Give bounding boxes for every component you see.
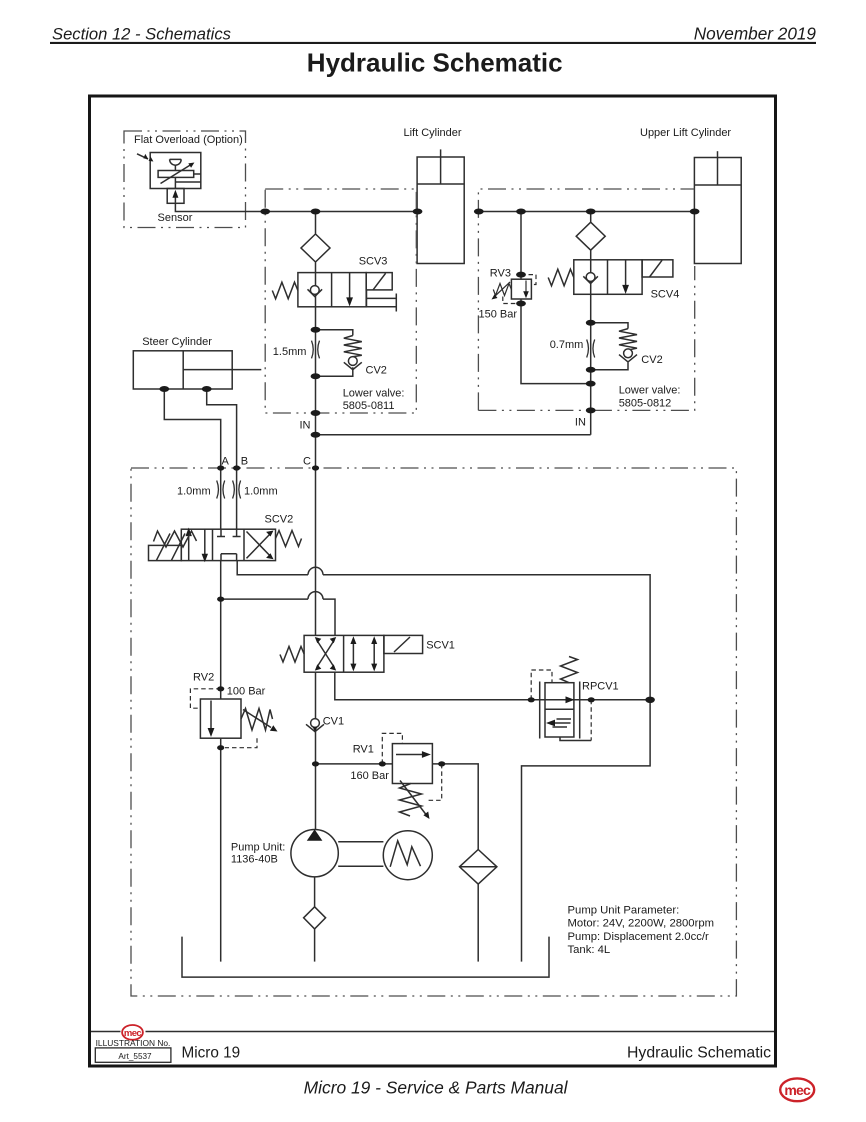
return filter diamond xyxy=(460,850,497,885)
node RPCV1 outlet xyxy=(645,697,655,703)
sensor up arrow xyxy=(174,195,176,203)
pump unit dash-dot box xyxy=(131,468,736,996)
orifice 1.0mm (A) xyxy=(217,481,225,499)
solenoid SCV4 xyxy=(642,260,673,277)
wire CV1 junction to RV1 xyxy=(316,763,393,765)
svg-text:Lift Cylinder: Lift Cylinder xyxy=(404,127,462,139)
node CV2 right bottom xyxy=(586,367,596,373)
CV2 right check ball xyxy=(624,349,633,358)
svg-text:SCV4: SCV4 xyxy=(651,289,680,301)
svg-text:Hydraulic Schematic: Hydraulic Schematic xyxy=(307,48,563,78)
RPCV1 drain hook xyxy=(560,737,591,741)
flat overload option dash-dot box xyxy=(124,131,246,228)
svg-text:RPCV1: RPCV1 xyxy=(582,681,619,693)
wire RV1 to return filter xyxy=(432,764,478,850)
svg-text:Micro 19: Micro 19 xyxy=(182,1044,241,1061)
svg-text:Lower valve:: Lower valve: xyxy=(619,385,681,397)
svg-text:5805-0811: 5805-0811 xyxy=(343,400,395,412)
SCV2 center position blocked ports xyxy=(217,529,241,560)
node RV3 branch xyxy=(516,209,526,215)
valve SCV4 flow arrow xyxy=(625,260,627,287)
SCV1 parallel arrows xyxy=(353,642,374,667)
svg-text:1136-40B: 1136-40B xyxy=(231,853,278,865)
node SCV2 A-return xyxy=(217,597,224,602)
wire SCV2 B-port to right riser (hop over main) xyxy=(237,561,650,962)
node SCV4 branch xyxy=(586,209,596,215)
wire SCV1 to RPCV1 xyxy=(335,672,650,700)
RV3 flow arrow xyxy=(525,281,527,293)
RV3 spring and adjuster xyxy=(493,284,511,296)
node steer port B xyxy=(202,386,212,392)
sensor outer box xyxy=(150,153,201,189)
node RV3 return xyxy=(586,381,596,387)
node RV2 inlet xyxy=(217,686,224,691)
node CV2 left top xyxy=(311,327,321,333)
orifice 1.0mm (B) xyxy=(233,481,241,499)
sensor wiper links xyxy=(175,174,200,189)
node SCV3 branch xyxy=(311,209,321,215)
node on left wire at box edge xyxy=(260,209,270,215)
lift cylinder rod xyxy=(440,149,442,184)
svg-text:RV1: RV1 xyxy=(353,743,374,755)
svg-text:160 Bar: 160 Bar xyxy=(350,770,389,782)
svg-text:Section 12 - Schematics: Section 12 - Schematics xyxy=(52,24,231,43)
valve SCV1 body xyxy=(304,635,384,672)
svg-text:IN: IN xyxy=(300,419,311,431)
wire SCV2 A-port down xyxy=(220,561,222,699)
RV2 pilot dashed xyxy=(190,689,257,748)
steer cylinder rod xyxy=(183,369,261,371)
relief valve RV1 body xyxy=(392,744,432,784)
SCV2 right spring xyxy=(276,531,302,547)
svg-text:0.7mm: 0.7mm xyxy=(550,339,584,351)
node IN left wire xyxy=(311,432,321,438)
valve SCV2 body xyxy=(181,529,275,560)
svg-text:Tank: 4L: Tank: 4L xyxy=(568,944,611,956)
RV2 spring and adjuster xyxy=(241,709,273,731)
lower valve 5805-0812 dash-dot box xyxy=(478,189,694,410)
wire steer port A to node A xyxy=(164,389,220,468)
svg-text:November 2019: November 2019 xyxy=(694,23,817,43)
relief valve RV3 branch wire xyxy=(521,212,591,384)
orifice 1.5mm xyxy=(312,341,320,359)
RPCV1 spring xyxy=(561,657,578,683)
node RPCV1 pilot left xyxy=(528,697,535,702)
CV2 right spring xyxy=(619,329,637,350)
svg-text:100 Bar: 100 Bar xyxy=(227,685,266,697)
valve SCV4 body xyxy=(574,260,642,295)
steer cylinder piston xyxy=(182,351,184,389)
svg-text:150 Bar: 150 Bar xyxy=(479,309,518,321)
node RPCV1 pilot right xyxy=(588,697,595,702)
pump suction line xyxy=(314,877,316,907)
flow regulator RPCV1 rails xyxy=(540,682,580,739)
sensor dome element xyxy=(170,159,182,170)
svg-text:SCV2: SCV2 xyxy=(265,514,294,526)
node RV2 outlet xyxy=(217,745,224,750)
RPCV1 body xyxy=(545,683,574,737)
SCV1 spring xyxy=(280,647,304,663)
svg-text:SCV1: SCV1 xyxy=(426,639,455,651)
node lift cylinder port xyxy=(413,209,423,215)
upper lift cylinder body xyxy=(694,158,741,264)
pump direction triangle xyxy=(307,829,323,840)
wire return filter to tank xyxy=(477,884,479,962)
sensor signal arrow (top-left) xyxy=(137,154,148,159)
SCV1 cross arrows xyxy=(317,641,334,668)
svg-text:Flat Overload (Option): Flat Overload (Option) xyxy=(134,134,243,146)
wire node B to SCV2 xyxy=(236,468,238,529)
wire SCV4 down to IN xyxy=(590,294,592,435)
wire SCV1 down through CV1 to pump xyxy=(315,672,317,830)
node CV2 left bottom xyxy=(311,373,321,379)
RV1 spring and adjuster xyxy=(400,784,422,817)
svg-text:SCV3: SCV3 xyxy=(359,256,388,268)
valve SCV3 flow arrow xyxy=(349,273,351,299)
svg-text:Lower valve:: Lower valve: xyxy=(343,387,405,399)
svg-text:RV2: RV2 xyxy=(193,672,214,684)
valve SCV3 check position xyxy=(315,273,317,307)
main border frame xyxy=(90,96,776,1066)
svg-text:5805-0812: 5805-0812 xyxy=(619,398,672,410)
svg-text:1.5mm: 1.5mm xyxy=(273,346,307,358)
SCV2 right position cross arrows xyxy=(247,532,271,559)
pump circle xyxy=(291,830,338,877)
svg-text:Pump Unit Parameter:: Pump Unit Parameter: xyxy=(568,904,680,916)
svg-text:B: B xyxy=(241,456,248,468)
node right wire at box edge xyxy=(474,209,484,215)
valve SCV4 spring xyxy=(548,269,574,286)
hop A-return over main xyxy=(308,592,323,600)
lift cylinder piston xyxy=(417,183,464,185)
svg-text:Sensor: Sensor xyxy=(158,212,193,224)
node RV1 pilot xyxy=(379,761,386,766)
solenoid SCV1 xyxy=(384,635,423,653)
relief valve RV2 body xyxy=(200,699,241,738)
check valve CV2 (right) loop xyxy=(591,323,628,370)
svg-text:Art_5537: Art_5537 xyxy=(118,1052,152,1061)
upper lift cylinder rod xyxy=(717,151,719,185)
suction strainer diamond xyxy=(304,907,326,929)
node IN right xyxy=(586,407,596,413)
sensor variable arrow xyxy=(161,165,191,184)
steer cylinder body xyxy=(133,351,232,389)
RPCV1 pilot dashed xyxy=(531,670,591,741)
node A xyxy=(217,465,224,470)
SCV2 left spring xyxy=(154,531,197,547)
svg-text:CV2: CV2 xyxy=(641,354,662,366)
svg-text:Motor: 24V, 2200W, 2800rpm: Motor: 24V, 2200W, 2800rpm xyxy=(568,918,715,930)
svg-text:Micro 19 - Service & Parts Man: Micro 19 - Service & Parts Manual xyxy=(304,1077,569,1097)
check valve CV2 (left) loop xyxy=(316,330,353,377)
RV1 pilot dashed xyxy=(382,733,441,800)
svg-text:Upper Lift Cylinder: Upper Lift Cylinder xyxy=(640,127,731,139)
CV2 left spring xyxy=(344,336,362,357)
svg-text:1.0mm: 1.0mm xyxy=(177,486,211,498)
wire node A to SCV2 xyxy=(220,468,222,529)
svg-text:C: C xyxy=(303,456,311,468)
motor M symbol xyxy=(390,841,420,867)
RPCV1 lower arrow with restrictor xyxy=(552,722,571,724)
wire SCV2 A-return to SCV1 (hop over main) xyxy=(221,599,335,635)
orifice 0.7mm xyxy=(587,340,595,358)
relief valve RV2 wire xyxy=(220,738,222,961)
svg-text:Pump: Displacement 2.0cc/r: Pump: Displacement 2.0cc/r xyxy=(568,931,710,943)
RV3 pilot dashed xyxy=(503,275,536,304)
node steer port A xyxy=(159,386,169,392)
node RV3 outlet xyxy=(516,301,526,307)
illustration number box xyxy=(95,1048,171,1062)
motor circle xyxy=(383,831,432,880)
svg-text:Pump Unit:: Pump Unit: xyxy=(231,842,285,854)
pump-motor coupling lines xyxy=(338,842,383,867)
relief valve RV3 body xyxy=(511,279,531,299)
header rule xyxy=(50,42,816,44)
node C xyxy=(312,465,319,470)
sensor resistor element xyxy=(158,171,194,178)
RV2 flow arrow xyxy=(210,701,212,731)
lift cylinder body xyxy=(417,157,464,264)
mec logo footer right xyxy=(780,1078,814,1101)
tank outline xyxy=(182,937,549,978)
node CV2 right top xyxy=(586,320,596,326)
suction line into tank xyxy=(314,929,316,962)
wire right circuit to upper lift cylinder xyxy=(478,211,694,213)
valve SCV4 check position xyxy=(590,260,592,295)
svg-text:ILLUSTRATION No.: ILLUSTRATION No. xyxy=(96,1038,171,1048)
valve SCV3 spring xyxy=(272,282,298,299)
svg-text:CV2: CV2 xyxy=(366,365,387,377)
node B xyxy=(233,465,240,470)
sensor lower block xyxy=(167,189,184,204)
node RV1 drain xyxy=(438,761,445,766)
check valve CV1 xyxy=(311,719,320,728)
svg-text:A: A xyxy=(222,456,230,468)
wire steer port B to node B xyxy=(207,389,237,468)
mec logo small (illustration block) xyxy=(122,1025,143,1040)
svg-text:1.0mm: 1.0mm xyxy=(244,486,278,498)
solenoid SCV3 xyxy=(366,273,392,290)
upper lift cylinder piston xyxy=(694,184,741,186)
lower valve 5805-0811 dash-dot box xyxy=(265,189,416,413)
wire sensor to lift cylinder xyxy=(175,203,417,211)
valve SCV3 body xyxy=(298,273,366,307)
RV1 flow arrow xyxy=(396,754,424,756)
SCV2 left position arrows xyxy=(188,535,190,561)
svg-text:RV3: RV3 xyxy=(490,268,511,280)
CV2 left check ball xyxy=(348,357,357,366)
RPCV1 upper flow arrow xyxy=(566,696,575,703)
node RV1 branch xyxy=(312,761,319,766)
node upper lift cylinder port xyxy=(690,209,700,215)
node IN left xyxy=(311,410,321,416)
svg-text:IN: IN xyxy=(575,417,586,429)
svg-text:mec: mec xyxy=(784,1082,811,1098)
svg-text:Hydraulic Schematic: Hydraulic Schematic xyxy=(627,1044,771,1061)
svg-text:Steer Cylinder: Steer Cylinder xyxy=(142,336,212,348)
solenoid SCV3 connector xyxy=(366,290,396,312)
schematic labels xyxy=(134,127,731,956)
hop B-line over main xyxy=(308,567,323,575)
footer strip divider line xyxy=(91,1031,774,1033)
solenoid SCV2 xyxy=(149,545,182,560)
wire SCV3 down to IN and on to SCV1 xyxy=(315,307,317,636)
filter diamond above SCV4 xyxy=(576,212,605,260)
svg-text:CV1: CV1 xyxy=(323,716,344,728)
wire IN-left to IN-right xyxy=(316,434,591,436)
node RV3 inlet xyxy=(516,272,526,278)
filter diamond above SCV3 xyxy=(301,212,330,273)
